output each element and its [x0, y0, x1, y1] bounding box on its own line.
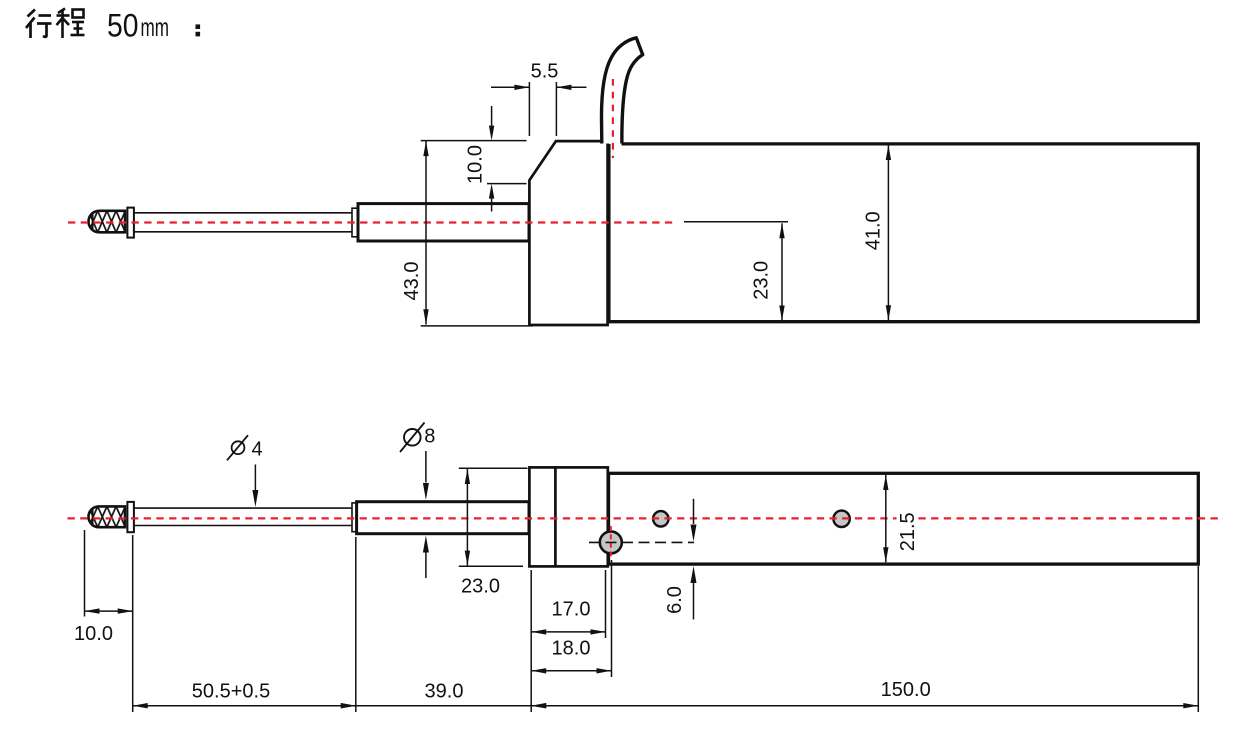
hole 1 (offset hole) [600, 531, 622, 553]
dimension 10.0 (knob length) [74, 530, 133, 645]
extension line rod step [355, 537, 357, 712]
dimension 50.5+0.5 (stroke length) [133, 680, 356, 708]
bottom view block divider line [554, 467, 557, 566]
svg-text:41.0: 41.0 [863, 211, 885, 250]
svg-text:50.5+0.5: 50.5+0.5 [192, 680, 270, 702]
dimension 23.0 (top view, centre to bottom) [684, 222, 788, 321]
top view thick rod Ø8 [358, 204, 529, 241]
top view tip flange [127, 208, 133, 238]
extension line body right [1197, 566, 1199, 712]
dimension 5.5 (chamfer width) [491, 61, 587, 136]
bottom view thin rod Ø4 [134, 508, 352, 525]
svg-text:23.0: 23.0 [751, 261, 773, 300]
bottom view thick rod Ø8 [357, 502, 529, 534]
bottom view mounting block [529, 467, 607, 566]
svg-text:43.0: 43.0 [401, 262, 423, 301]
svg-text:21.5: 21.5 [897, 512, 919, 551]
svg-text:mm: mm [141, 12, 170, 42]
svg-text:6.0: 6.0 [664, 586, 686, 614]
bottom view tip flange [127, 502, 133, 532]
bottom view rod collar [352, 503, 357, 532]
svg-text:5.5: 5.5 [531, 61, 559, 83]
svg-text:10.0: 10.0 [464, 145, 486, 184]
hole 1 dashed reference line [589, 541, 694, 543]
dimension 21.5 (body height, bottom view) [883, 475, 919, 562]
hole 2 [653, 511, 668, 526]
dimension 43.0 (block height) [401, 141, 533, 326]
dimension 6.0 (hole offset) [664, 499, 696, 620]
extension line block left [530, 570, 532, 712]
dimension 17.0 [531, 599, 605, 635]
top view shaft tip knob (knurled) [89, 211, 126, 233]
svg-text:10.0: 10.0 [74, 623, 113, 645]
hole 1 red crosshair [610, 526, 612, 559]
top view sensor body [609, 144, 1198, 322]
extension line hole 1 centre [611, 560, 613, 677]
extension line flange right [132, 535, 134, 712]
top view mounting block with chamfer [529, 141, 607, 325]
label Ø4 with leader [227, 435, 263, 507]
dimension 150.0 (body length) [531, 679, 1198, 708]
extension line block right [605, 570, 607, 638]
dimension 41.0 (body height) [863, 145, 892, 320]
top view centerline [68, 221, 675, 223]
dimension 39.0 [341, 680, 546, 708]
top view rod collar [352, 208, 358, 237]
title text: 行程 50mm : [26, 7, 200, 43]
top view cable centerline [612, 79, 614, 158]
svg-text:18.0: 18.0 [552, 638, 591, 660]
dimension 23.0 (block height, bottom view) [459, 468, 528, 597]
dimension 18.0 [531, 638, 611, 674]
bottom view centerline [68, 517, 1221, 519]
top view cable [601, 38, 642, 144]
svg-text:150.0: 150.0 [881, 679, 931, 701]
svg-text:23.0: 23.0 [461, 576, 500, 598]
label Ø8 with leader [400, 423, 435, 579]
svg-text:17.0: 17.0 [552, 599, 591, 621]
top view thin rod Ø4 [134, 213, 352, 232]
svg-text:8: 8 [424, 425, 435, 447]
bottom view shaft tip knob (knurled) [88, 506, 125, 527]
dimension 10.0 (top view) [421, 106, 527, 212]
hole 3 [833, 511, 849, 527]
svg-text:50: 50 [107, 7, 139, 43]
svg-text:39.0: 39.0 [425, 680, 464, 702]
bottom view sensor body [609, 473, 1199, 564]
svg-text:4: 4 [251, 438, 262, 460]
